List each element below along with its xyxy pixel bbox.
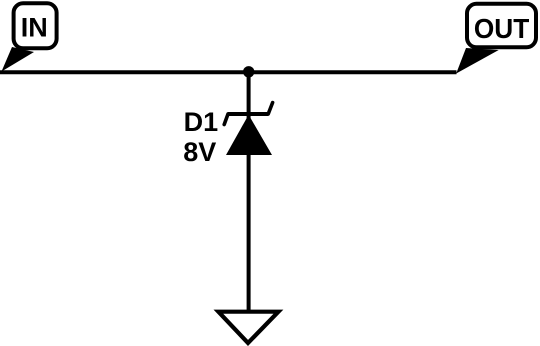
node junction dot: [243, 66, 254, 77]
wire horizontal IN to OUT: [0, 70, 457, 74]
svg-text:D1: D1: [184, 107, 219, 137]
flag tail OUT: [456, 48, 499, 74]
zener wing right: [268, 103, 272, 114]
terminal flag OUT: [467, 4, 536, 48]
zener diode D1 cathode bar: [228, 112, 268, 116]
wire vertical from junction to ground: [247, 72, 251, 312]
svg-text:OUT: OUT: [474, 13, 529, 44]
flag tail IN: [2, 47, 35, 72]
zener diode D1 anode triangle: [226, 115, 272, 155]
svg-text:IN: IN: [21, 13, 48, 43]
terminal flag IN: [14, 3, 57, 48]
svg-text:8V: 8V: [183, 137, 216, 167]
ground: [218, 312, 278, 343]
zener wing left: [224, 114, 228, 125]
